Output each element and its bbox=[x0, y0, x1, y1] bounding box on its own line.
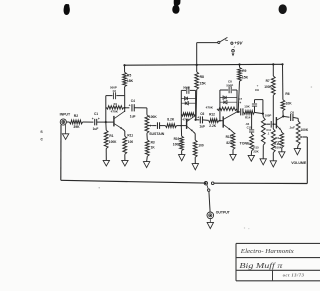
ground output jack bbox=[209, 219, 211, 223]
svg-text:Big Muff π: Big Muff π bbox=[239, 261, 282, 270]
wire R9 to collector bbox=[238, 81, 239, 112]
resistor R1 100K bbox=[105, 122, 107, 130]
resistor 470K stage2 bbox=[182, 113, 196, 116]
wire Q1 emitter to R11 bbox=[123, 129, 125, 131]
wire to output jack bbox=[209, 191, 210, 212]
punch hole right bbox=[279, 4, 287, 14]
svg-text:18K: 18K bbox=[127, 79, 134, 83]
svg-text:R4: R4 bbox=[275, 136, 279, 140]
ground R1 bbox=[105, 149, 107, 161]
ground R11 bbox=[124, 154, 126, 160]
svg-text:820: 820 bbox=[226, 141, 232, 145]
capacitor C8 500P bbox=[220, 89, 228, 91]
transistor Q4 bbox=[275, 117, 277, 128]
resistor R2 39K bbox=[66, 121, 69, 123]
svg-text:2.2K: 2.2K bbox=[274, 142, 281, 146]
svg-text:R6: R6 bbox=[285, 92, 289, 96]
svg-text:R13: R13 bbox=[226, 135, 232, 139]
svg-text:15K: 15K bbox=[200, 82, 207, 86]
svg-text:R12: R12 bbox=[209, 112, 215, 116]
punch hole left bbox=[64, 4, 70, 15]
svg-text:C4: C4 bbox=[131, 99, 135, 103]
svg-text:INPUT: INPUT bbox=[60, 112, 71, 116]
wire feedback box top right bbox=[116, 95, 124, 97]
svg-text:TONE: TONE bbox=[240, 141, 251, 145]
svg-text:500P: 500P bbox=[110, 86, 117, 90]
svg-text:.04: .04 bbox=[245, 122, 249, 126]
svg-text:100K: 100K bbox=[173, 143, 181, 147]
svg-text:1uF: 1uF bbox=[130, 114, 136, 118]
capacitor C5 bbox=[156, 122, 158, 129]
node rail-R9 bbox=[238, 63, 240, 65]
resistor R8 15K bbox=[196, 65, 198, 72]
diode D4 bbox=[220, 101, 237, 103]
wire R12 to Q3 base bbox=[219, 120, 223, 122]
node rail-switch bbox=[196, 64, 198, 66]
svg-text:R3: R3 bbox=[151, 140, 155, 144]
wire pot to R3 bbox=[146, 133, 148, 140]
svg-text:+: + bbox=[239, 101, 241, 105]
svg-text:500P: 500P bbox=[183, 85, 190, 89]
ground R10 bbox=[181, 151, 183, 155]
svg-text:100K: 100K bbox=[109, 140, 117, 144]
resistor R3 1K bbox=[145, 140, 149, 157]
ground tone pot bbox=[262, 145, 264, 159]
wire cap to Q4 base bbox=[273, 123, 276, 125]
svg-text:C2: C2 bbox=[113, 89, 117, 93]
svg-text:C6: C6 bbox=[200, 112, 204, 116]
resistor 8.2K series bbox=[160, 125, 166, 127]
resistor R13 820 bbox=[231, 132, 235, 149]
svg-text:C11: C11 bbox=[266, 128, 271, 132]
potentiometer tone bbox=[262, 114, 264, 118]
svg-text:470K: 470K bbox=[206, 106, 214, 110]
svg-text:1K: 1K bbox=[151, 146, 156, 150]
resistor R10 100K bbox=[180, 126, 182, 137]
wire volume wiper down bbox=[303, 136, 308, 138]
wire feedback box left vertical bbox=[105, 96, 107, 123]
wire switch riser bbox=[196, 43, 198, 65]
resistor R9 15K bbox=[239, 65, 241, 68]
ground R13 bbox=[232, 149, 234, 154]
transistor Q2 bbox=[186, 119, 188, 129]
capacitor C 500P stage2 bbox=[181, 89, 186, 91]
wire to node B bbox=[254, 112, 263, 113]
node Q1 collector bbox=[124, 107, 126, 109]
switch contact left bbox=[204, 182, 207, 185]
capacitor C9 loop bbox=[255, 99, 263, 101]
svg-text:22K: 22K bbox=[253, 150, 259, 154]
resistor 470K stage3 bbox=[217, 107, 237, 110]
svg-text:C1: C1 bbox=[94, 112, 98, 116]
wire R7 down to base node bbox=[272, 95, 274, 121]
node B bbox=[262, 113, 264, 115]
input jack J1 bbox=[60, 119, 66, 125]
svg-text:R14: R14 bbox=[245, 115, 251, 119]
wire R5 to collector bbox=[124, 87, 126, 96]
potentiometer sustain 100K bbox=[145, 115, 149, 133]
svg-text:R9: R9 bbox=[242, 69, 246, 73]
resistor R5 18K bbox=[124, 65, 126, 72]
svg-text:39K: 39K bbox=[73, 125, 80, 129]
wire stage2 box left vertical bbox=[180, 90, 182, 125]
svg-text:R11: R11 bbox=[127, 134, 133, 138]
speck bbox=[99, 187, 100, 188]
svg-text:100K: 100K bbox=[264, 85, 272, 89]
svg-text:8.2K: 8.2K bbox=[167, 118, 175, 122]
svg-text:100K: 100K bbox=[149, 115, 158, 119]
svg-text:+: + bbox=[98, 117, 100, 121]
punch hole middle bbox=[172, 0, 180, 14]
wire base to Q2 bbox=[181, 125, 186, 127]
potentiometer volume 100K bbox=[296, 121, 300, 145]
wire bottom rail left bbox=[61, 180, 205, 183]
wire base node to Q1 bbox=[106, 121, 114, 123]
wire Q3 emitter bbox=[231, 130, 233, 132]
svg-text:oct 13/73: oct 13/73 bbox=[283, 273, 305, 278]
capacitor C11 wiper to base bbox=[267, 123, 270, 125]
svg-text:R7: R7 bbox=[266, 79, 270, 83]
diode D1 bbox=[181, 97, 195, 99]
svg-text:C10: C10 bbox=[247, 126, 252, 130]
svg-text:R2: R2 bbox=[74, 114, 78, 118]
ground volume pot bbox=[296, 145, 299, 149]
ground R16 bbox=[272, 153, 274, 161]
ground 22K bbox=[250, 151, 252, 156]
wire R2 to C1 bbox=[83, 121, 94, 123]
svg-text:470K: 470K bbox=[111, 110, 119, 114]
node Q2 collector bbox=[195, 119, 197, 121]
resistor R11 100 bbox=[123, 136, 127, 154]
svg-text:OUTPUT: OUTPUT bbox=[216, 211, 231, 215]
wire C1 to Q1 base node bbox=[97, 121, 106, 123]
wire input left vertical bbox=[60, 125, 62, 181]
ground input jack bbox=[64, 125, 66, 134]
node Q1 base bbox=[105, 121, 107, 123]
svg-text:100: 100 bbox=[128, 140, 134, 144]
ground R3 bbox=[146, 156, 149, 161]
svg-text:2.2K: 2.2K bbox=[209, 124, 216, 128]
switch contact right bbox=[211, 182, 214, 185]
resistor R16 100K bbox=[272, 128, 274, 129]
svg-text:+: + bbox=[92, 117, 94, 121]
output jack J2 bbox=[207, 212, 214, 219]
wire C4 to sustain pot bbox=[134, 107, 147, 109]
capacitor C6 out bbox=[283, 115, 289, 118]
svg-text:s: s bbox=[40, 129, 43, 134]
resistor 22K tone bbox=[251, 133, 253, 134]
node Q3 collector bbox=[237, 111, 239, 113]
diode D3 bbox=[220, 97, 237, 99]
node Q2 base bbox=[180, 125, 182, 127]
switch contact lower bbox=[208, 189, 210, 191]
wire feedback box top left bbox=[106, 95, 113, 97]
capacitor C2 500P bbox=[112, 92, 114, 99]
resistor R12 2.2K bbox=[203, 119, 209, 122]
resistor R17 2.2K bbox=[280, 132, 284, 147]
svg-text:c: c bbox=[40, 137, 43, 142]
svg-text:+: + bbox=[129, 104, 131, 108]
svg-text:100P: 100P bbox=[265, 113, 272, 117]
wire stage3 box left vertical bbox=[219, 90, 221, 121]
transistor Q3 bbox=[222, 116, 224, 127]
wire stage2 box right vertical bbox=[195, 90, 197, 119]
svg-text:SUSTAIN: SUSTAIN bbox=[149, 132, 165, 136]
diode D2 bbox=[181, 102, 195, 104]
resistor 15K tone bbox=[242, 111, 245, 113]
battery terminal bbox=[232, 50, 235, 53]
wire sustain wiper to C5 bbox=[152, 125, 156, 127]
svg-text:.1uF: .1uF bbox=[289, 125, 295, 129]
node rail-R5 bbox=[123, 64, 125, 66]
svg-text:R4: R4 bbox=[114, 102, 118, 106]
switch S1 bbox=[218, 41, 220, 43]
capacitor C10 .004 branch bbox=[251, 112, 253, 129]
capacitor C1 1uF bbox=[94, 119, 96, 126]
transistor Q1 bbox=[113, 116, 115, 127]
svg-text:100: 100 bbox=[198, 143, 204, 147]
node Q4 collector bbox=[282, 115, 284, 117]
wire to Q2 base bbox=[177, 125, 182, 127]
svg-text:500P: 500P bbox=[226, 83, 233, 87]
resistor R7 100K bbox=[272, 64, 274, 76]
node rail-R6 bbox=[281, 63, 283, 65]
svg-text:10K: 10K bbox=[286, 101, 293, 105]
svg-text:15K: 15K bbox=[242, 76, 249, 80]
capacitor C4 1uF bbox=[125, 107, 130, 109]
wire R8 to collector node bbox=[195, 89, 198, 119]
ground Q4 emitter bbox=[281, 148, 283, 152]
wire bottom rail right bbox=[214, 182, 307, 184]
svg-text:C6: C6 bbox=[290, 110, 294, 114]
ground Q2 emitter bbox=[194, 157, 196, 163]
wire Q2 emitter bbox=[193, 132, 195, 134]
svg-text:15K: 15K bbox=[244, 105, 250, 109]
svg-text:R1: R1 bbox=[109, 134, 113, 138]
wire +9V rail bbox=[125, 63, 283, 66]
svg-text:100K: 100K bbox=[301, 128, 309, 132]
wire stage2 box top right bbox=[190, 89, 196, 91]
wire stage3 box right vertical bbox=[236, 90, 238, 112]
svg-text:R10: R10 bbox=[174, 137, 180, 141]
svg-text:C9: C9 bbox=[255, 88, 259, 92]
resistor R6 10K bbox=[282, 64, 284, 100]
capacitor C7 bbox=[240, 108, 242, 115]
title block frame bbox=[236, 242, 320, 244]
svg-text:VOLUME: VOLUME bbox=[291, 161, 307, 165]
arrow below battery terminal bbox=[232, 53, 235, 56]
svg-text:C7: C7 bbox=[238, 97, 242, 101]
svg-text:Electro- Harmonix: Electro- Harmonix bbox=[240, 248, 294, 255]
svg-text:+9V: +9V bbox=[234, 40, 243, 45]
wire C6 to volume pot bbox=[293, 117, 298, 118]
svg-text:1uF: 1uF bbox=[93, 127, 99, 131]
node rail-R7 bbox=[272, 63, 274, 65]
svg-text:+: + bbox=[197, 116, 199, 120]
wire Q4 emitter bbox=[280, 130, 283, 132]
resistor 100 emitter Q2 bbox=[193, 140, 197, 157]
svg-text:R5: R5 bbox=[127, 74, 131, 78]
svg-text:R8: R8 bbox=[200, 75, 204, 79]
svg-text:1uF: 1uF bbox=[199, 125, 205, 129]
